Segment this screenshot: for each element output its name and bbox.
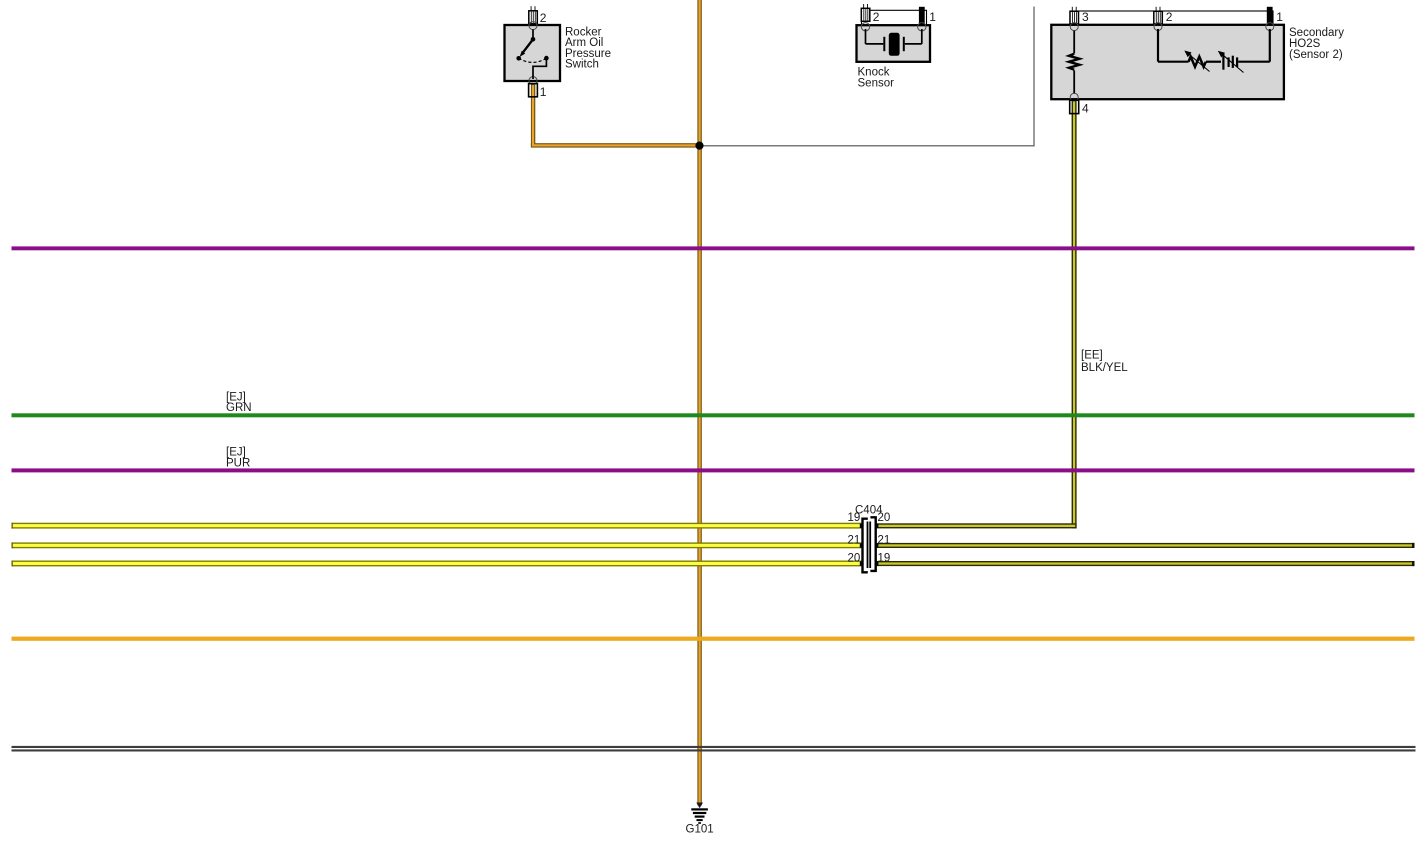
- knock sensor connector housing: [862, 10, 927, 25]
- HO2S pin 3 terminal: [1070, 7, 1079, 31]
- wire: orange trunk vertical (battery feed to G101): [697, 0, 701, 806]
- svg-text:G101: G101: [686, 824, 714, 836]
- wire: shield line from junction to knock sensor circuit (thin gray, horizontal then up): [699, 7, 1035, 147]
- svg-text:21: 21: [848, 535, 861, 547]
- HO2S pin 2 terminal: [1154, 7, 1163, 31]
- label: Secondary HO2S (Sensor 2): [1289, 27, 1344, 61]
- junction node on orange trunk: [695, 142, 703, 150]
- HO2S internal heater circuit: [1158, 29, 1270, 73]
- svg-text:BLK/YEL: BLK/YEL: [1081, 362, 1128, 374]
- knock sensor pin 1 terminal: [918, 7, 926, 31]
- svg-text:(Sensor 2): (Sensor 2): [1289, 49, 1343, 61]
- HO2S pin 4 terminal: [1070, 93, 1079, 113]
- wire: yellow row 20 left of C404: [12, 561, 862, 567]
- connector C404 left half: [863, 519, 868, 573]
- svg-text:Switch: Switch: [565, 59, 599, 71]
- label: [EJ] GRN: [226, 391, 252, 414]
- rocker arm oil pressure switch body: [505, 25, 561, 81]
- knock sensor pin 2 terminal: [861, 4, 870, 31]
- svg-text:3: 3: [1082, 10, 1089, 24]
- HO2S connector housing: [1070, 11, 1273, 25]
- wire: yellow row 19 left of C404: [12, 523, 862, 529]
- rocker switch pin 2 terminal: [529, 6, 538, 29]
- connector C404 right half: [870, 517, 875, 571]
- rocker switch internal contacts: [516, 29, 548, 79]
- svg-text:20: 20: [848, 553, 861, 565]
- svg-text:Sensor: Sensor: [858, 78, 895, 90]
- wire: orange bus lower: [12, 637, 1415, 641]
- svg-text:19: 19: [878, 553, 891, 565]
- wire: purple bus upper: [12, 246, 1415, 250]
- connector C404 mating pins: [868, 522, 871, 569]
- secondary HO2S body: [1051, 25, 1284, 99]
- svg-text:19: 19: [848, 512, 861, 524]
- wire: purple bus [EJ] PUR: [12, 468, 1415, 472]
- knock sensor internal piezo element: [866, 29, 922, 56]
- svg-text:2: 2: [1166, 10, 1173, 24]
- label: Rocker Arm Oil Pressure Switch: [565, 26, 611, 70]
- svg-text:20: 20: [878, 512, 891, 524]
- wire: double black shield bus line 1: [12, 746, 1416, 748]
- svg-text:4: 4: [1082, 102, 1089, 116]
- rocker switch pin 1 terminal: [529, 77, 538, 97]
- wire: green bus [EJ] GRN: [12, 413, 1415, 417]
- HO2S pin 1 terminal: [1266, 7, 1274, 31]
- label: [EJ] PUR: [226, 447, 250, 470]
- svg-text:2: 2: [873, 10, 880, 24]
- wire: double black shield bus line 2: [12, 749, 1416, 751]
- wire: BLK/YEL row 21 right of C404: [877, 543, 1415, 548]
- connector C404 terminal nubs: [860, 524, 879, 566]
- svg-text:PUR: PUR: [226, 457, 250, 469]
- wire: BLK/YEL row 19 right of C404: [877, 561, 1415, 566]
- label: [EE] BLK/YEL: [1081, 349, 1128, 374]
- svg-text:[EE]: [EE]: [1081, 349, 1103, 361]
- HO2S internal sensing element resistor: [1069, 31, 1080, 94]
- label: Knock Sensor: [858, 67, 895, 90]
- ground G101 symbol: [691, 803, 708, 824]
- wire: yellow row 21 left of C404: [12, 542, 862, 548]
- svg-text:1: 1: [540, 85, 547, 99]
- knock sensor body: [857, 25, 931, 62]
- svg-text:1: 1: [929, 10, 936, 24]
- wire: orange drop from rocker switch pin 1 and run to junction: [531, 85, 702, 148]
- svg-text:GRN: GRN: [226, 402, 252, 414]
- svg-text:21: 21: [878, 535, 891, 547]
- svg-text:2: 2: [540, 11, 547, 25]
- svg-text:1: 1: [1276, 10, 1283, 24]
- wire: [EE] BLK/YEL vertical from HO2S pin 4 down to C404 row 20: [877, 99, 1077, 528]
